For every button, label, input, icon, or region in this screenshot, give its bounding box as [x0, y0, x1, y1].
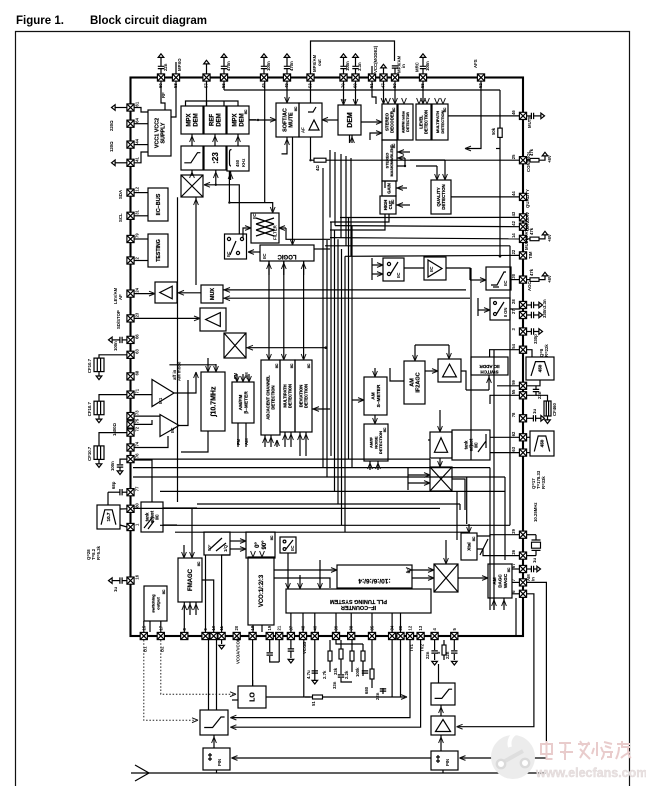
svg-text:470n: 470n — [289, 61, 294, 71]
wire mixer AM top — [439, 458, 441, 467]
svg-text:47k: 47k — [529, 268, 534, 276]
svg-text:Xtal: Xtal — [467, 542, 472, 550]
svg-text:IIC: IIC — [474, 442, 479, 447]
capacitor 470n at pin 56 — [221, 58, 227, 75]
dotted wire pin 17 to LO — [161, 640, 234, 694]
pin 60 (top edge) — [157, 74, 164, 88]
pin 15 (bottom edge) — [140, 625, 147, 639]
wire pin 71 to IF1 — [134, 394, 152, 396]
arrow into 450kHz bottom — [230, 171, 232, 180]
wire AM amp top — [448, 345, 450, 359]
wire IF2AGC to amp — [425, 370, 438, 372]
pin 31 (left edge) — [127, 209, 140, 219]
arrows into AM noise det bottom — [369, 461, 371, 470]
svg-text:AM: AM — [409, 378, 415, 387]
wire into mux lower — [223, 297, 470, 299]
svg-text:www.elecfans.com: www.elecfans.com — [535, 766, 646, 780]
svg-text:REF: REF — [210, 114, 216, 126]
svg-text:63: 63 — [511, 446, 516, 451]
svg-text:AM: AM — [492, 577, 497, 584]
vertical 467 — [466, 477, 468, 524]
svg-text:DETECTION: DETECTION — [378, 431, 383, 454]
pin 77 (left edge) — [127, 486, 140, 496]
resistor 47k to +8V at pin 14 — [527, 238, 531, 240]
svg-text:1u: 1u — [113, 587, 118, 592]
svg-text:2.7k: 2.7k — [322, 670, 327, 679]
pin 46 (right edge) — [511, 110, 527, 120]
wire pin 9 column — [205, 555, 207, 632]
svg-text:31: 31 — [135, 209, 140, 214]
svg-text:KHz: KHz — [241, 159, 246, 167]
svg-text:B2: B2 — [160, 646, 165, 652]
pin 62 (right edge) — [511, 431, 527, 441]
svg-text:PIN: PIN — [445, 759, 450, 766]
svg-text:IIC: IIC — [170, 428, 175, 434]
svg-text:PLL TUNING SYSTEM: PLL TUNING SYSTEM — [330, 598, 387, 604]
pin 75 (left edge) — [127, 418, 140, 428]
svg-text:in: in — [401, 64, 406, 68]
arrows into masking — [397, 151, 410, 153]
block PLL TUNING SYSTEM IF-COUNTER — [286, 589, 431, 613]
wire tank to pins — [490, 436, 520, 438]
pin 74 (left edge) — [127, 441, 140, 451]
pin 53 (top edge) — [307, 74, 314, 88]
wire VCO right out — [274, 569, 337, 571]
block tank adjust FM — [141, 502, 163, 532]
capacitor 3.3n at pin 28 — [527, 304, 532, 306]
block REF DEM — [204, 106, 226, 134]
block VCC1 VCC2 SUPPLY — [148, 110, 171, 156]
svg-text:QUALITY: QUALITY — [525, 189, 530, 208]
svg-text:DETECTION: DETECTION — [424, 110, 429, 134]
block ADJACENT CHANNEL DETECTION — [261, 360, 280, 435]
pin 30 (right edge) — [511, 273, 527, 283]
svg-text:AM/FM noise: AM/FM noise — [402, 111, 406, 133]
svg-text:IIC: IIC — [290, 363, 294, 368]
svg-text:100n: 100n — [266, 61, 271, 71]
svg-text:220Ω: 220Ω — [109, 120, 114, 131]
pin 41 (left edge) — [127, 156, 140, 166]
vertical 494 — [493, 350, 495, 610]
pin 34 (bottom edge) — [389, 625, 396, 639]
svg-text:26: 26 — [511, 549, 516, 554]
svg-text:DEM: DEM — [194, 113, 200, 126]
svg-text:SOFT/AC: SOFT/AC — [282, 108, 288, 132]
pin 36 (bottom edge) — [397, 625, 404, 639]
pin 21 (bottom edge) — [276, 625, 283, 639]
pin 14 (right edge) — [511, 233, 527, 243]
pin 47 (top edge) — [380, 74, 387, 88]
svg-text:4Ω: 4Ω — [315, 165, 320, 171]
wire beta meter outputs — [237, 423, 239, 447]
wire masking bottom bus — [384, 181, 386, 188]
ground arrow at pin 47 — [383, 68, 385, 74]
svg-text:in: in — [531, 577, 536, 581]
IF1 amplifier triangle — [152, 380, 174, 407]
svg-text:TESTING: TESTING — [156, 239, 162, 261]
svg-text:22n: 22n — [375, 692, 380, 700]
IF2 amplifier triangle — [160, 415, 179, 437]
svg-text:30: 30 — [511, 273, 516, 278]
arrows into divider right — [406, 568, 412, 573]
svg-text:4.7u: 4.7u — [306, 670, 311, 679]
svg-text:51: 51 — [311, 701, 316, 706]
wire pin 60 to supply — [161, 81, 165, 110]
block MULTIPATH DETECTION — [432, 104, 448, 140]
pin 55 (top edge) — [419, 74, 426, 88]
pin 52 (top edge) — [477, 74, 484, 88]
svg-text:450: 450 — [540, 439, 545, 447]
block AF amplifier — [299, 103, 322, 137]
resistor 5 bottom — [443, 640, 445, 660]
vertical 177 down — [177, 377, 179, 502]
wire amp2 top out — [439, 410, 441, 420]
svg-text:19: 19 — [267, 625, 272, 630]
vertical 510 — [509, 246, 511, 526]
ground arrow at pin 57 — [206, 64, 208, 74]
vertical 471 — [470, 268, 472, 460]
wire pin49 column to logic — [292, 137, 294, 245]
vertical bus B — [326, 240, 328, 477]
wire small switch down — [287, 553, 289, 589]
pin 39 (bottom edge) — [332, 625, 339, 639]
pin 6 (right edge) — [511, 590, 527, 598]
pin 29 (right edge) — [511, 528, 527, 538]
svg-text:FM: FM — [236, 438, 241, 445]
pin 11 (bottom edge) — [218, 625, 225, 639]
wire phase sw to 0-90 — [230, 540, 246, 542]
svg-text:79: 79 — [135, 233, 140, 238]
svg-text:77: 77 — [135, 486, 140, 491]
svg-text:AF: AF — [118, 294, 123, 300]
pin 19 (bottom edge) — [266, 625, 273, 639]
svg-text:CF10.7: CF10.7 — [87, 401, 92, 416]
svg-text:25: 25 — [511, 154, 516, 159]
svg-text:AF: AF — [301, 127, 306, 133]
pin 3 (right edge) — [511, 328, 527, 336]
mixer FM demod — [181, 175, 203, 197]
svg-text:100n: 100n — [345, 61, 350, 71]
wire into mixer AM left — [408, 474, 430, 476]
capacitor 22n at pin 59/55 — [527, 392, 537, 395]
wire AM PIN bottom — [442, 770, 444, 773]
block de-emphasis ramp — [181, 146, 203, 170]
vertical harness 335 — [334, 152, 336, 226]
pin 66 (left edge) — [127, 334, 140, 344]
vertical bus C — [330, 222, 332, 456]
pin 49 (top edge) — [283, 74, 290, 88]
switch block sig — [225, 234, 247, 259]
pin 48 (bottom edge) — [299, 625, 306, 639]
pin 1 (left edge) — [127, 523, 140, 531]
pin 8 (bottom edge) — [181, 628, 188, 640]
vertical 490 — [489, 468, 491, 610]
vertical harness 341 — [340, 154, 342, 238]
pin 26 (right edge) — [511, 549, 527, 559]
wire pin 55 inside — [490, 395, 520, 404]
pin 56 (top edge) — [220, 74, 227, 88]
svg-text:24: 24 — [135, 287, 140, 292]
wire addr switch up — [488, 375, 490, 390]
block AM S-METER — [364, 377, 387, 415]
pin 58 (top edge) — [172, 74, 179, 88]
svg-text:71: 71 — [135, 388, 140, 393]
small IIC switch block — [280, 537, 296, 553]
arrows into stereo decoder top — [386, 98, 391, 104]
inner top bus wire — [224, 89, 500, 91]
pin 28 (right edge) — [511, 299, 527, 309]
block VCO dividers — [248, 557, 274, 625]
svg-text:LO: LO — [249, 692, 256, 702]
vertical wire right low — [515, 598, 517, 636]
svg-text:CF10.7: CF10.7 — [87, 358, 92, 373]
wire harness bend 2 — [459, 504, 461, 510]
long wire y491 — [160, 490, 505, 492]
pin 67 (right edge) — [511, 563, 527, 573]
wire pin 44 from quality — [451, 196, 520, 198]
svg-text:DETECTION: DETECTION — [441, 184, 446, 209]
pin 57 (top edge) — [203, 74, 210, 88]
svg-text:β–METER: β–METER — [244, 391, 250, 414]
wire xtal top — [468, 524, 470, 533]
capacitor 100n at pin 70 — [340, 58, 346, 75]
FM input filter block — [200, 710, 228, 735]
wire 450kHz down to filter — [229, 171, 272, 213]
pin 44 (left edge) — [127, 138, 140, 148]
capacitor 100n at pin 66 — [123, 339, 128, 341]
wire pin 51 down — [372, 81, 376, 104]
wire into mid switch — [372, 264, 383, 266]
pin 23 (left edge) — [127, 312, 140, 322]
wire onoff out — [510, 305, 520, 309]
pin 51 (top edge) — [368, 74, 375, 88]
svg-text:VCC(MODE2): VCC(MODE2) — [373, 45, 378, 73]
wire filter left from switch — [243, 228, 251, 239]
block IIC ADDR SWITCH — [471, 357, 508, 375]
arrow into gain — [396, 187, 407, 189]
svg-text:3.3n: 3.3n — [357, 62, 362, 71]
long wire y532 — [175, 531, 470, 533]
svg-text:330p: 330p — [533, 334, 538, 344]
arrows into FMAGC bottom — [189, 602, 191, 615]
svg-text:62: 62 — [511, 431, 516, 436]
wire pin 8 to FMAGC — [183, 602, 185, 632]
svg-text:IIC: IIC — [392, 107, 396, 112]
vertical wire with resistor 50k — [499, 90, 501, 128]
svg-text:AM/FM: AM/FM — [238, 395, 244, 411]
wire AF output down — [310, 137, 312, 160]
svg-text:MUTE: MUTE — [289, 112, 295, 128]
svg-text::23: :23 — [211, 152, 220, 164]
arrows into adjacent channel top — [268, 261, 270, 360]
wire mixer out to mux — [195, 197, 197, 285]
wires DEM to stereo decoder — [361, 121, 382, 123]
wire LO top — [252, 680, 254, 686]
wires pins to IIC-BUS — [134, 192, 148, 194]
svg-text:68p: 68p — [111, 481, 116, 489]
pin 27 (right edge) — [511, 309, 527, 319]
svg-text:66: 66 — [135, 334, 140, 339]
pin 24 (left edge) — [127, 287, 140, 297]
pin 79 (left edge) — [127, 233, 140, 243]
label VCC/MODE at pin 51 — [371, 66, 373, 74]
pin 63 (right edge) — [511, 446, 527, 456]
capacitor cluster below pin 18 — [252, 640, 254, 686]
pin 76 (left edge) — [127, 453, 140, 463]
wire logic to switch — [249, 251, 260, 253]
pin 52 wire with arrow — [466, 81, 481, 149]
vertical bus G — [344, 256, 346, 532]
svg-text:20: 20 — [234, 625, 239, 630]
svg-text:3.3n: 3.3n — [542, 299, 547, 308]
wire pin 48 to LO line — [303, 640, 305, 697]
svg-text:IIC: IIC — [307, 363, 311, 368]
wire IF1 out — [174, 372, 196, 393]
wire pins to IF2 — [134, 415, 160, 417]
svg-text:IIC: IIC — [391, 199, 395, 204]
svg-text:33n: 33n — [332, 681, 337, 689]
wire IF2AGC left — [390, 368, 404, 381]
block MUX — [201, 285, 223, 303]
arrow DEM bottom up — [351, 135, 353, 143]
mixer FM — [224, 333, 246, 358]
pin 63 (left edge) — [127, 348, 140, 358]
svg-text:100k: 100k — [355, 667, 360, 677]
wire onoff switch left — [478, 309, 490, 311]
svg-text:74: 74 — [135, 441, 140, 446]
wire harness bend 1 — [429, 459, 431, 467]
wire pins 4 5 caps — [434, 640, 436, 650]
wire pin 30 from slope det — [511, 279, 520, 281]
svg-text:IIC: IIC — [396, 273, 401, 279]
wire tank adjust up — [134, 460, 152, 502]
pin 61 (left edge) — [127, 101, 140, 111]
capacitor 1u at pin 67 — [527, 568, 532, 570]
svg-text:IIC: IIC — [294, 106, 298, 111]
watermark text chinese — [541, 741, 631, 760]
svg-text:IIC: IIC — [244, 109, 248, 114]
wire LO right line — [266, 696, 310, 698]
wire pin 25 — [310, 159, 520, 161]
pin 78 (right edge) — [511, 412, 527, 422]
svg-text:450: 450 — [235, 159, 240, 167]
svg-text:Figure 1.: Figure 1. — [16, 15, 64, 27]
pin 35 (bottom edge) — [368, 625, 375, 639]
pin 43 (right edge) — [511, 211, 527, 221]
wire 10.7 out down — [181, 431, 208, 452]
block AM IF2AGC — [404, 361, 425, 404]
input arrow at pin 41 — [115, 162, 127, 164]
IIC triangle buffer — [424, 257, 446, 280]
svg-text:MULTIPATH: MULTIPATH — [524, 226, 529, 250]
block MPX DEM — [181, 106, 203, 134]
block STEREO DECODER — [382, 104, 397, 140]
pin 5 (bottom edge) — [451, 628, 458, 640]
vertical 505 — [504, 477, 506, 560]
arrow 450kHz to MPX DEM2 — [237, 134, 239, 146]
mixer PLL — [434, 564, 458, 592]
svg-text:680: 680 — [364, 686, 369, 694]
svg-text:DEM: DEM — [347, 112, 354, 128]
bandpass filter 450 top right — [526, 357, 554, 380]
wire amp out to addr switch — [461, 371, 466, 390]
wire FM filter to PIN — [213, 735, 215, 748]
block tank adjust AM — [452, 430, 490, 460]
svg-text:100n: 100n — [113, 341, 118, 351]
svg-text:S–METER: S–METER — [376, 384, 382, 407]
wire into AM smeter — [374, 368, 376, 377]
vertical bus E — [337, 239, 339, 504]
svg-text:DETECTION: DETECTION — [288, 384, 293, 408]
svg-text:64: 64 — [135, 117, 140, 122]
svg-text:GAIN: GAIN — [387, 183, 392, 193]
bandpass filter 10.7 block — [97, 505, 120, 529]
resistor network bottom — [314, 640, 316, 680]
wire mixer PLL top — [445, 540, 447, 564]
wire mixer2 down to 10.7 — [207, 358, 209, 372]
wire switch to IIC tri — [404, 267, 424, 269]
svg-text:IIC: IIC — [429, 267, 434, 273]
pin 40 (bottom edge) — [311, 625, 318, 639]
pin 9 (bottom edge) — [202, 628, 209, 640]
block :23 divider — [204, 146, 226, 170]
long wire y477 — [133, 476, 505, 478]
watermark logo circle — [491, 731, 535, 779]
svg-text:100n: 100n — [110, 461, 115, 471]
pin 54 (right edge) — [511, 343, 527, 353]
wire highcut down — [330, 214, 385, 230]
svg-text:1u: 1u — [532, 558, 537, 563]
wire FMAGC right — [202, 580, 214, 632]
svg-text:IIC: IIC — [507, 567, 511, 572]
svg-text:1400Ω: 1400Ω — [112, 422, 117, 436]
wire slope det left — [470, 279, 486, 281]
svg-text:22: 22 — [511, 249, 516, 254]
IC chip boundary — [131, 78, 524, 637]
svg-text:CONTROL: CONTROL — [526, 150, 531, 172]
svg-text:MUTE: MUTE — [527, 116, 532, 128]
wire mixer AM right — [452, 479, 465, 510]
wire VCO bottom pins — [252, 625, 254, 632]
block LEVEL DETECTION — [416, 104, 431, 140]
wire TV1 to FM filter — [230, 640, 410, 718]
svg-text:14: 14 — [511, 233, 516, 238]
AM amp triangle — [438, 359, 461, 382]
block AM/FM level meter — [232, 382, 254, 423]
harness wire pin 43 — [340, 216, 520, 218]
pin 42 (right edge) — [511, 220, 527, 230]
svg-text:28: 28 — [511, 299, 516, 304]
ceramic filter CF10.7 #1 — [94, 358, 104, 372]
pin 55 (right edge) — [511, 389, 527, 399]
pin 64 (left edge) — [127, 117, 140, 127]
svg-text:68: 68 — [135, 370, 140, 375]
wire mux to buffer1 — [177, 292, 201, 294]
wire IIC tri out — [446, 268, 470, 280]
wire pin 57 to REF DEM — [206, 81, 208, 106]
wire AM filter up — [438, 664, 440, 683]
AM amp triangle block — [431, 716, 455, 735]
bandpass filter 450 right — [530, 431, 554, 456]
wire into mux upper — [223, 289, 466, 291]
wire pin 69 to DEM — [355, 81, 357, 105]
wire divider to mixer PLL — [412, 569, 434, 571]
wire PLL top arrows — [299, 575, 301, 589]
wire mute left input — [249, 119, 256, 121]
block on/off switch — [490, 298, 510, 320]
svg-text:46: 46 — [511, 110, 516, 115]
arrows into logic bottom — [268, 261, 270, 275]
